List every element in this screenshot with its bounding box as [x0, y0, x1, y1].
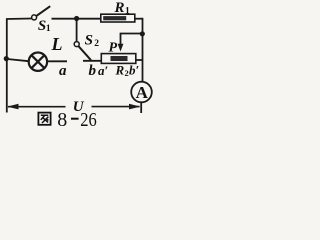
svg-text:b′: b′	[129, 63, 140, 78]
svg-text:R: R	[114, 0, 125, 16]
svg-text:A: A	[136, 83, 149, 102]
node junction dot top (S2 branch)	[74, 16, 79, 21]
wire slider P vertical drop	[120, 33, 122, 46]
node junction dot slider/right wire	[140, 31, 145, 36]
svg-text:P: P	[109, 41, 118, 56]
wire ammeter bottom stub / right terminal bar	[140, 103, 142, 113]
wire lamp row: left wire to lamp	[6, 59, 29, 61]
svg-text:1: 1	[46, 24, 51, 34]
switch S2 hinge circle	[74, 42, 79, 47]
wire R2 box right end b' to right vertical	[136, 59, 143, 61]
svg-text:b: b	[89, 63, 97, 79]
resistor R1 box	[101, 14, 135, 22]
svg-text:1: 1	[125, 7, 130, 17]
caption dash	[71, 118, 79, 120]
svg-text:R: R	[115, 63, 125, 78]
node junction dot left wire / lamp row	[4, 56, 9, 61]
wire R1 to top-right corner	[135, 18, 143, 20]
wire bottom U-arrow line right segment	[92, 106, 140, 108]
svg-text:8: 8	[57, 109, 67, 129]
wire lamp to point a	[48, 60, 67, 62]
wire S2 branch vertical from junction	[76, 19, 78, 42]
U arrowhead left	[7, 104, 18, 110]
svg-text:a: a	[59, 63, 67, 79]
svg-text:S: S	[85, 33, 93, 49]
wire top left segment to S1 hinge	[6, 18, 32, 21]
caption glyph 图 (hand-drawn)	[38, 113, 50, 125]
wire right vertical (corner down to ammeter)	[142, 18, 144, 82]
slider P arrowhead	[118, 44, 124, 52]
switch S1 hinge circle	[32, 15, 37, 20]
svg-text:26: 26	[80, 109, 97, 129]
switch S2 blade	[78, 46, 91, 60]
wire left vertical (top-left corner down to bottom terminal)	[6, 19, 8, 113]
svg-text:L: L	[51, 34, 63, 54]
svg-text:2: 2	[94, 39, 99, 49]
potentiometer R2 box	[101, 54, 136, 64]
lamp L (circle with X)	[29, 53, 47, 71]
switch S1 blade	[36, 6, 50, 16]
U arrowhead right	[129, 104, 140, 110]
svg-text:a′: a′	[98, 63, 109, 78]
wire top right of S1 to R1	[52, 18, 101, 20]
wire point b to R2 box	[83, 60, 101, 62]
wire bottom U-arrow line left segment	[8, 106, 66, 108]
resistor R1 inner smudge	[103, 16, 126, 20]
ammeter A	[131, 82, 152, 103]
potentiometer R2 inner smudge	[111, 56, 128, 61]
wire slider P horizontal to right-wire junction	[121, 33, 143, 35]
